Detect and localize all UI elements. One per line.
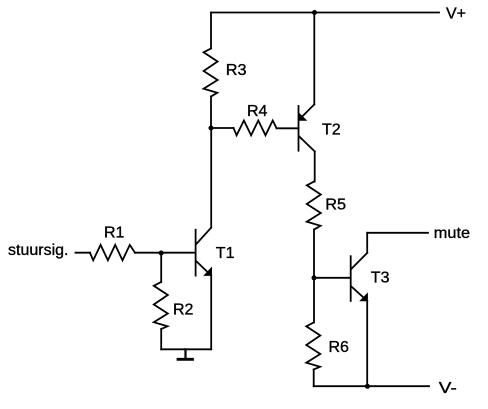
node R1/R2 junction bbox=[159, 251, 164, 256]
svg-text:stuursig.: stuursig. bbox=[8, 242, 68, 259]
transistor T2 bbox=[299, 104, 315, 151]
node R3/R4/T1 junction bbox=[209, 126, 214, 131]
wire R4 to T2 base bbox=[277, 127, 299, 129]
ground bbox=[178, 349, 193, 359]
wire T1 collector bbox=[210, 128, 212, 228]
wire R3 bottom bbox=[210, 97, 212, 129]
svg-text:R6: R6 bbox=[329, 339, 350, 356]
wire V- rail bbox=[314, 385, 429, 387]
svg-text:T3: T3 bbox=[371, 269, 390, 286]
transistor T1 bbox=[196, 228, 212, 276]
wire mute rail bbox=[367, 232, 428, 234]
node V+ junction bbox=[312, 10, 317, 15]
wire T2 emitter to V+ bbox=[313, 13, 315, 105]
wire R4 left stub bbox=[211, 127, 234, 129]
wire R2 top bbox=[160, 253, 162, 282]
wire V+ rail bbox=[211, 12, 439, 14]
wire R3 top bbox=[210, 13, 212, 49]
svg-text:V+: V+ bbox=[446, 5, 466, 22]
resistor R4 bbox=[234, 121, 277, 136]
svg-text:mute: mute bbox=[434, 225, 470, 242]
svg-text:R1: R1 bbox=[104, 224, 125, 241]
wire R5 to R6 bbox=[313, 230, 315, 323]
wire emitter-ground rail bbox=[161, 348, 211, 350]
wire T3 emitter to V- bbox=[366, 301, 368, 386]
svg-text:R3: R3 bbox=[226, 62, 247, 79]
svg-text:R2: R2 bbox=[173, 301, 194, 318]
node T3 base junction bbox=[312, 275, 317, 280]
svg-text:T1: T1 bbox=[216, 245, 235, 262]
svg-text:R4: R4 bbox=[247, 103, 268, 120]
node V- junction bbox=[365, 384, 370, 389]
wire T2 collector to R5 bbox=[314, 151, 316, 181]
resistor R1 bbox=[90, 245, 135, 260]
transistor T3 bbox=[351, 253, 368, 301]
resistor R6 bbox=[306, 323, 320, 370]
resistor R3 bbox=[204, 49, 218, 97]
resistor R2 bbox=[154, 282, 168, 329]
wire R1 to T1 base bbox=[135, 252, 196, 254]
svg-text:R5: R5 bbox=[325, 196, 346, 213]
resistor R5 bbox=[307, 182, 321, 230]
wire T3 collector to mute bbox=[366, 233, 368, 253]
wire R2 bottom bbox=[160, 329, 162, 349]
svg-text:T2: T2 bbox=[322, 122, 341, 139]
svg-text:V-: V- bbox=[439, 380, 457, 397]
wire T1 emitter bbox=[210, 276, 212, 350]
wire T3 base bbox=[314, 277, 351, 279]
wire R6 bottom bbox=[313, 370, 315, 387]
wire stuursig stub bbox=[76, 252, 91, 254]
